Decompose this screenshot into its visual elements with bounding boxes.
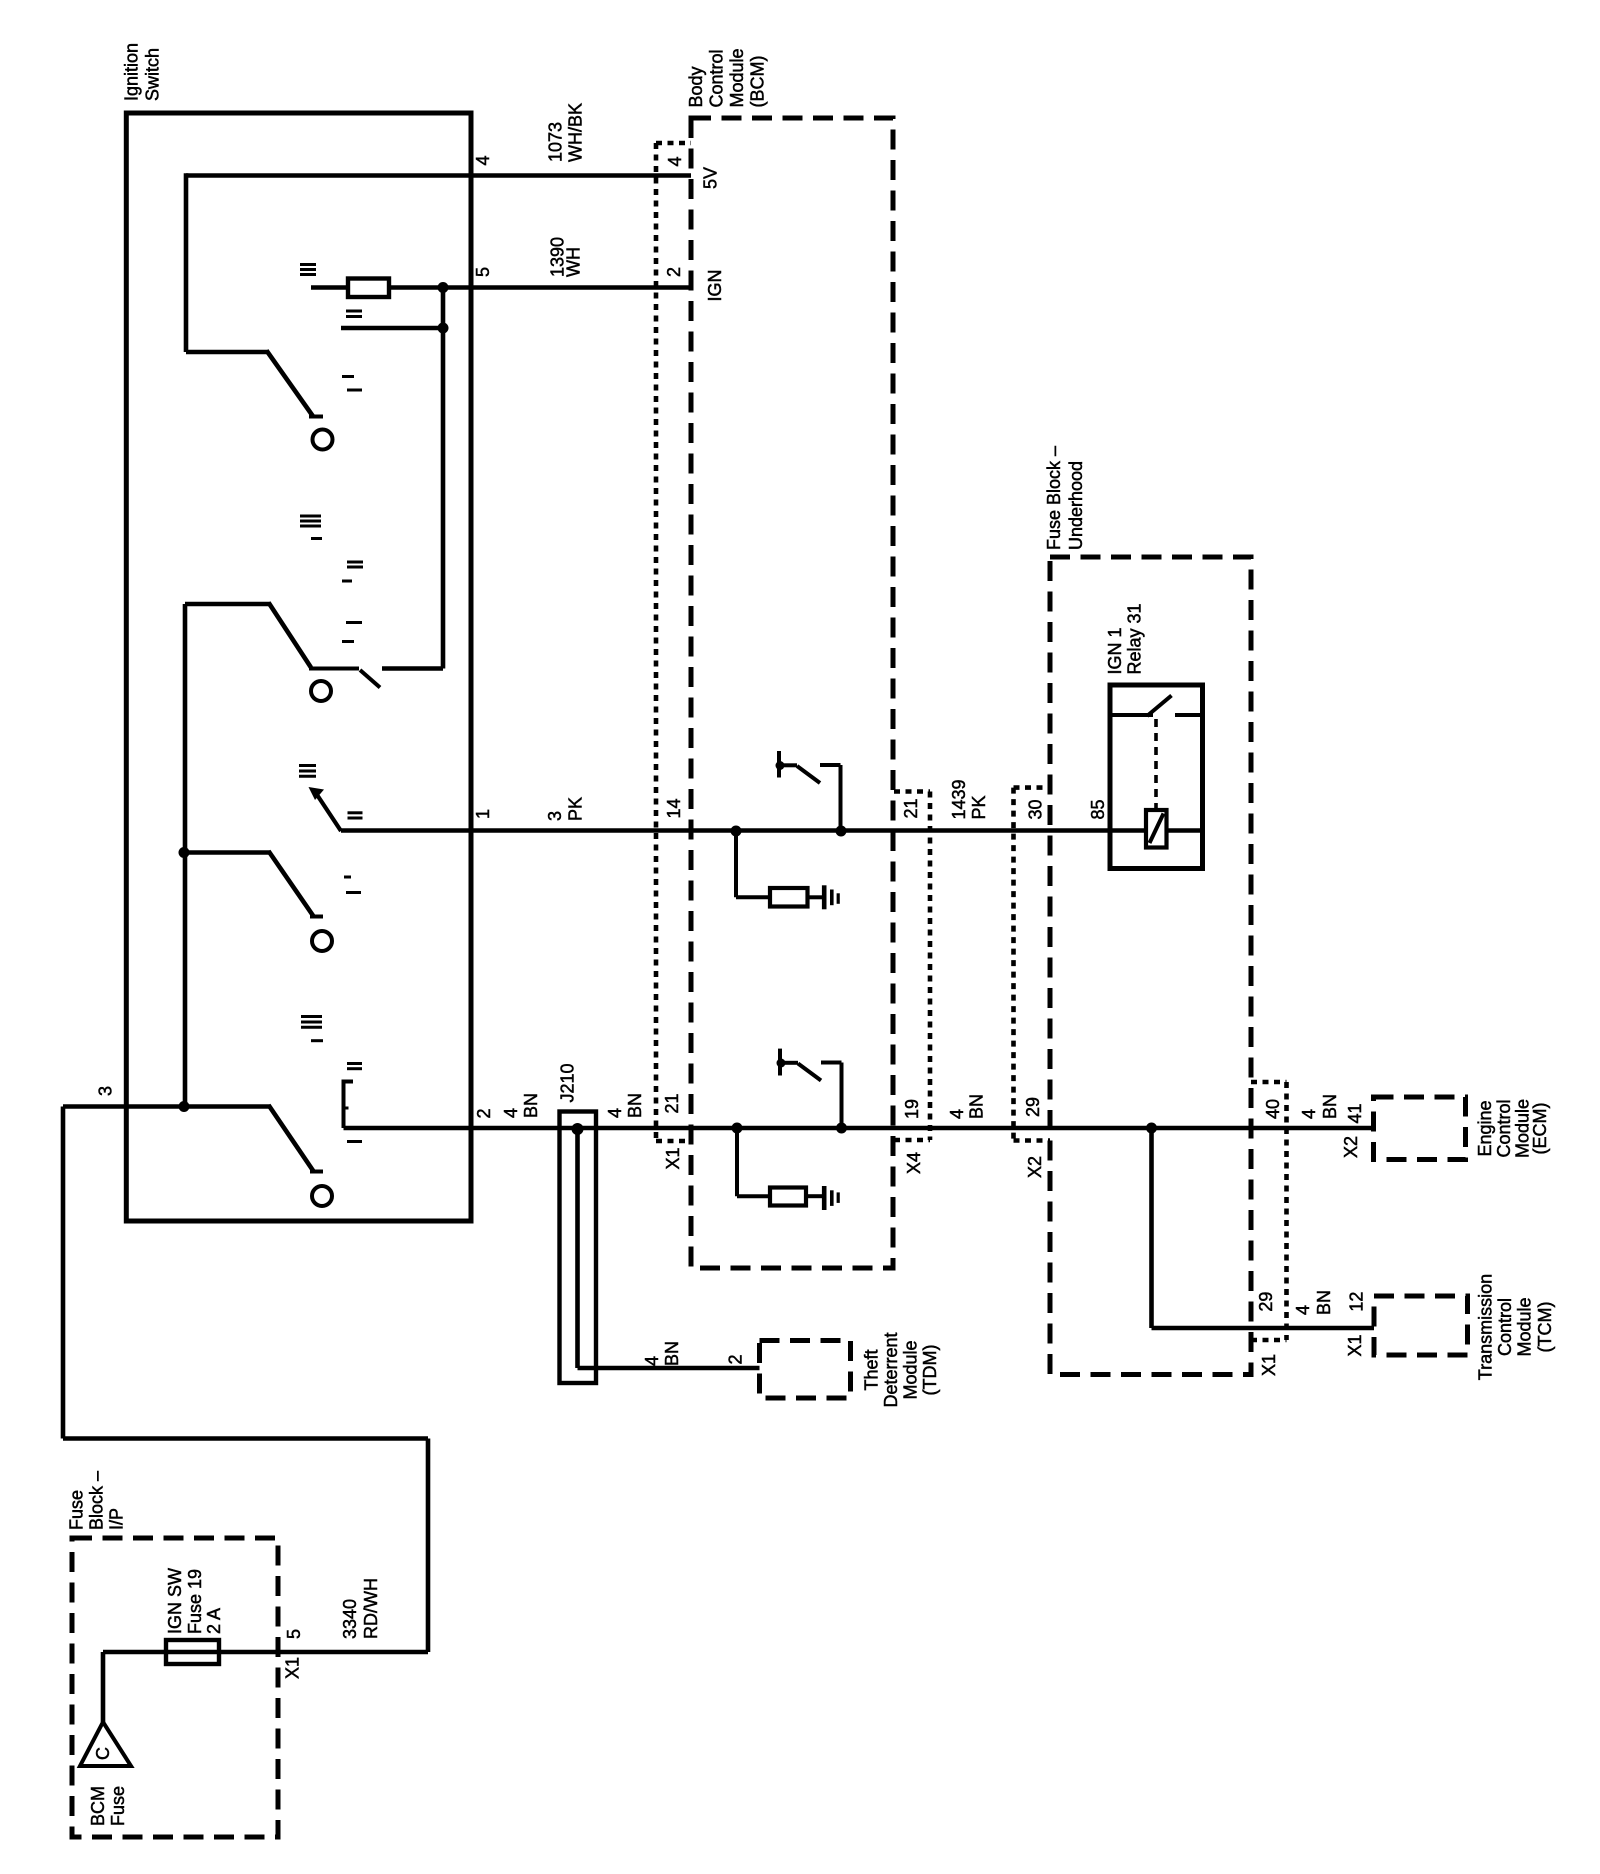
ground symbol 2 [822,1186,827,1210]
svg-text:Transmission: Transmission [1476,1274,1496,1380]
svg-text:(BCM): (BCM) [748,56,768,108]
svg-text:29: 29 [1023,1097,1043,1117]
svg-text:X4: X4 [904,1152,924,1174]
wiper arm with arrow pin1 [318,796,342,832]
fuse block underhood box [1050,557,1251,1375]
relay contact [1110,713,1153,717]
svg-text:4: 4 [501,1108,521,1118]
connector X2 strip [1011,788,1016,1141]
svg-text:X2: X2 [1025,1156,1045,1178]
wire group A left leg [184,173,189,352]
junction node pin5 [438,282,449,293]
svg-text:BN: BN [967,1094,987,1119]
junction node ECM/TCM split [1146,1123,1157,1134]
junction node J210 [572,1123,584,1135]
wire inner vertical bus [183,604,188,1107]
position marks III for S2 [300,515,321,518]
wire TCM branch [1149,1128,1154,1328]
svg-text:12: 12 [1347,1292,1367,1312]
switch S2 arm fixed [269,603,312,668]
svg-text:WH: WH [564,247,584,277]
svg-text:BN: BN [521,1093,541,1118]
wire pin1 (3 PK) to relay [341,828,1146,833]
svg-text:BN: BN [625,1093,645,1118]
svg-text:1: 1 [473,809,493,819]
svg-text:3: 3 [96,1086,116,1096]
position mark I for S4 [347,1140,362,1143]
position marks II for S2 [347,561,363,564]
fuse IGN SW 19 [166,1640,219,1664]
position marks III for wiper C [299,764,316,767]
wire to BCM fuse triangle [101,1652,106,1722]
junction node group D [179,847,190,858]
svg-text:Module: Module [901,1340,921,1399]
svg-text:Control: Control [1494,1099,1514,1157]
svg-text:Module: Module [727,48,747,107]
svg-text:1073: 1073 [546,122,566,162]
pin2 contact bracket [344,1082,354,1129]
svg-text:C: C [93,1747,113,1760]
wire position II contact [341,326,443,331]
wire S2 to bus [382,666,443,671]
transmission control module box [1374,1296,1468,1355]
svg-text:X2: X2 [1341,1136,1361,1158]
ignition switch box [126,113,471,1221]
svg-text:4: 4 [1299,1109,1319,1119]
svg-text:BN: BN [1314,1290,1334,1315]
svg-text:4: 4 [1293,1305,1313,1315]
resistor in ignition switch [311,285,348,290]
position marks II for S3 [344,876,351,879]
svg-text:(TDM): (TDM) [920,1345,940,1396]
svg-text:4: 4 [642,1356,662,1366]
ground resistor 2 [735,1128,739,1196]
svg-text:WH/BK: WH/BK [566,103,586,162]
svg-text:I/P: I/P [107,1508,127,1530]
wire pin85 through relay [1167,828,1203,833]
BCM driver switch 1 [777,751,781,778]
svg-text:Control: Control [707,49,727,107]
switch S3 arm [269,851,315,917]
splice J210 box [560,1112,597,1384]
triangle connector C [80,1722,131,1766]
svg-text:(ECM): (ECM) [1530,1103,1550,1155]
svg-text:Block –: Block – [87,1471,107,1530]
junction node group E [179,1101,190,1112]
ground resistor 1 [734,831,738,897]
svg-text:PK: PK [969,795,989,819]
svg-text:2: 2 [726,1354,746,1364]
svg-text:2: 2 [664,267,684,277]
junction node II wire [438,323,449,334]
relay IGN1 box [1110,685,1203,869]
connector X1 fuse block strip [1284,1082,1289,1340]
svg-text:Fuse: Fuse [108,1786,128,1826]
fuse block IP box [72,1538,278,1837]
svg-text:Theft: Theft [862,1349,882,1390]
position marks III for S4 [301,1015,322,1018]
svg-text:2: 2 [474,1108,494,1118]
position marks I for S2 [346,621,362,624]
svg-text:2 A: 2 A [204,1608,224,1634]
connector X4 strip [928,792,933,1141]
junction node driver 1 [836,826,847,837]
switch S1 arm [267,351,314,418]
svg-text:5V: 5V [701,167,721,189]
position marks II for S4 [347,1062,362,1065]
junction node driver 2 [836,1123,847,1134]
svg-text:Fuse: Fuse [67,1490,87,1530]
svg-text:IGN: IGN [705,269,725,301]
svg-text:Underhood: Underhood [1066,461,1086,550]
switch S4 contact circle [312,1186,332,1206]
svg-text:BN: BN [1320,1094,1340,1119]
junction node ground branch 1 [731,826,742,837]
BCM driver switch 2 [778,1049,782,1076]
wire pin3 entry [63,1104,270,1109]
relay coil box [1146,810,1167,848]
svg-text:X1: X1 [1259,1354,1279,1376]
wire vertical bus x443 [441,288,446,669]
svg-text:X1: X1 [663,1147,683,1169]
svg-text:Control: Control [1495,1298,1515,1356]
switch S2 contact circle [311,681,331,701]
svg-text:Engine: Engine [1475,1100,1495,1156]
svg-text:3340: 3340 [340,1599,360,1639]
svg-text:Switch: Switch [143,48,163,101]
engine control module box [1374,1097,1466,1160]
wire group B top leg [185,602,270,607]
svg-text:30: 30 [1026,799,1046,819]
svg-text:IGN SW: IGN SW [165,1568,185,1634]
switch S1 contact circle [313,430,333,450]
svg-text:4: 4 [473,155,493,165]
svg-text:X1: X1 [1345,1334,1365,1356]
svg-text:1439: 1439 [949,779,969,819]
svg-text:19: 19 [902,1099,922,1119]
svg-text:PK: PK [566,797,586,821]
wire group D top leg [184,850,270,855]
wire pin5 to BCM [443,285,691,290]
svg-text:Deterrent: Deterrent [881,1332,901,1407]
svg-text:4: 4 [947,1109,967,1119]
theft deterrent module box [760,1341,851,1399]
ground symbol 1 [822,885,827,909]
position marks I for S1 [342,375,354,378]
svg-text:40: 40 [1263,1099,1283,1119]
switch S3 contact circle [312,931,332,951]
switch S4 arm [269,1105,315,1172]
position marks III for S1 [300,263,316,266]
svg-text:5: 5 [473,267,493,277]
relay actuate dashed link [1154,719,1158,810]
svg-text:41: 41 [1345,1103,1365,1123]
svg-text:IGN 1: IGN 1 [1105,627,1125,674]
svg-text:29: 29 [1256,1292,1276,1312]
svg-text:Relay 31: Relay 31 [1125,603,1145,674]
svg-text:3: 3 [545,811,565,821]
svg-text:Body: Body [686,66,706,107]
svg-text:BCM: BCM [88,1786,108,1826]
wire 3340 RD/WH path [61,1107,66,1439]
svg-text:Module: Module [1515,1297,1535,1356]
body control module box [691,118,893,1268]
svg-text:J210: J210 [558,1063,578,1102]
wire TDM branch [575,1129,580,1368]
svg-text:Ignition: Ignition [122,43,142,101]
svg-text:85: 85 [1088,799,1108,819]
svg-text:RD/WH: RD/WH [361,1578,381,1639]
svg-text:Fuse 19: Fuse 19 [185,1569,205,1634]
svg-text:4: 4 [605,1108,625,1118]
svg-text:BN: BN [662,1341,682,1366]
svg-text:14: 14 [664,798,684,818]
wire group A bottom leg [186,350,268,355]
connector X1 strip [654,143,659,1141]
position marks II for wiper C [348,811,363,814]
svg-text:5: 5 [284,1629,304,1639]
svg-text:4: 4 [665,156,685,166]
svg-text:X1: X1 [283,1657,303,1679]
wire pin4 internal feed [186,173,691,178]
junction node ground branch 2 [732,1123,743,1134]
switch S2 blade open [360,670,380,688]
svg-text:(TCM): (TCM) [1535,1302,1555,1353]
svg-text:Fuse Block –: Fuse Block – [1044,446,1064,550]
position marks II for S1 [346,310,362,313]
svg-text:21: 21 [662,1093,682,1113]
wire pin2 (4 BN) to ECM [344,1126,1374,1131]
svg-text:21: 21 [901,798,921,818]
